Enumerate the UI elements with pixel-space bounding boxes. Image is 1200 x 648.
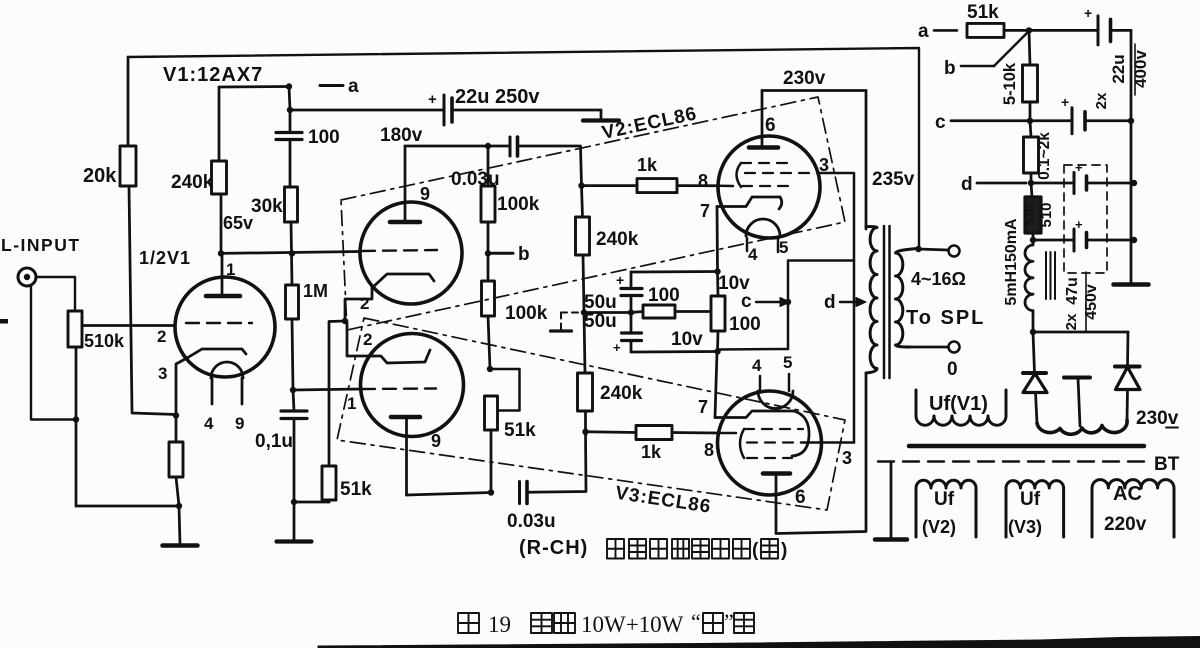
svg-text:100k: 100k	[505, 303, 548, 324]
winding Uf(V2)	[916, 480, 976, 537]
V3 pentode cathode pin 7	[715, 411, 794, 418]
resistor 1k (V3 grid stopper)	[586, 430, 637, 433]
V3 triode cathode pin 2	[373, 350, 430, 363]
svg-text:b: b	[944, 58, 956, 79]
wire V1 plate to V2 triode grid	[221, 252, 360, 254]
svg-text:”: ”	[724, 609, 734, 634]
resistor 51k (V2/V3 triode cathode bias)	[294, 501, 329, 504]
svg-text:50u: 50u	[584, 311, 617, 332]
svg-text:0.03u: 0.03u	[507, 511, 556, 532]
svg-text:450v: 450v	[1083, 284, 1100, 320]
V2 triode plate pin 9	[404, 146, 407, 222]
svg-text:180v: 180v	[380, 125, 423, 146]
svg-text:4~16Ω: 4~16Ω	[911, 269, 966, 289]
svg-text:1: 1	[226, 260, 235, 279]
phantom R-CH stub (dashed ground)	[561, 312, 584, 314]
capacitor 0.03u (bottom coupling)	[518, 482, 521, 504]
wire jack ground side	[31, 286, 76, 420]
output terminal bottom 0	[910, 346, 947, 349]
output terminal top	[915, 246, 921, 252]
resistor 240k V1 plate load	[219, 85, 289, 88]
svg-text:3: 3	[842, 448, 852, 468]
svg-text:(V2): (V2)	[922, 517, 956, 537]
tube V2 pentode section	[718, 136, 820, 238]
svg-text:50u: 50u	[584, 292, 617, 313]
svg-text:+: +	[613, 340, 621, 355]
wire V3 plate to coupling cap	[407, 493, 492, 496]
svg-text:(: (	[752, 540, 759, 561]
wire 180v line	[405, 145, 509, 148]
svg-text:+: +	[1075, 160, 1083, 175]
capacitor 50u (top)	[630, 272, 633, 289]
svg-text:1k: 1k	[637, 155, 658, 175]
svg-text:20k: 20k	[83, 165, 117, 187]
svg-text:(R-CH): (R-CH)	[519, 537, 588, 559]
HT center tap to ground bar	[1064, 376, 1090, 380]
svg-text:230v: 230v	[783, 68, 826, 89]
capacitor 47u (lower)	[1033, 239, 1073, 242]
svg-text:5-10k: 5-10k	[1001, 62, 1019, 105]
svg-text:1M: 1M	[303, 281, 328, 301]
svg-text:AC: AC	[1113, 483, 1142, 505]
wire B+ to filter cap	[289, 87, 290, 111]
svg-text:c: c	[935, 112, 946, 133]
wire feedback top (20k to speaker secondary)	[128, 48, 919, 251]
winding AC 220v	[1092, 480, 1174, 537]
svg-text:2x: 2x	[1063, 313, 1080, 330]
svg-text:b: b	[518, 244, 530, 265]
V3 triode plate pin 9	[391, 415, 420, 420]
svg-text:19: 19	[488, 612, 511, 637]
svg-text:510: 510	[1023, 205, 1037, 225]
svg-text:3: 3	[158, 364, 167, 383]
OPT primary winding	[866, 227, 877, 374]
svg-text:240k: 240k	[171, 172, 214, 193]
V1 cathode pin 3	[187, 349, 246, 358]
wire b-chain to 50u midpoint	[584, 311, 631, 314]
svg-text:65v: 65v	[223, 213, 253, 233]
wire cathode to 50u top	[631, 270, 718, 273]
svg-text:230v: 230v	[1136, 408, 1179, 429]
svg-text:Uf: Uf	[934, 489, 955, 510]
node 10v top junction	[714, 268, 720, 274]
V2 triode grid	[362, 250, 437, 251]
svg-text:d: d	[824, 292, 836, 313]
winding Uf(V3)	[1006, 481, 1064, 537]
input jack connector	[18, 268, 36, 286]
svg-text:235v: 235v	[872, 169, 915, 190]
capacitor 100 (V1 plate bypass)	[289, 110, 292, 132]
svg-text:30k: 30k	[251, 196, 283, 217]
ground V1 cathode	[179, 506, 180, 544]
svg-text:8: 8	[698, 171, 708, 191]
svg-text:To SPL: To SPL	[906, 307, 985, 329]
V2 pentode heater pins 4 5	[746, 219, 780, 236]
svg-text:5: 5	[783, 353, 792, 372]
resistor 100k (lower)	[487, 253, 490, 281]
tube envelope V2 ECL86 dash-dot box	[341, 97, 845, 330]
ground power transformer	[890, 462, 893, 538]
V2 triode cathode pin 2	[372, 274, 434, 288]
wire 50u bottom to V3 cathode node	[631, 350, 718, 353]
V3 pentode heater pins 4 5	[758, 391, 793, 409]
svg-text:51k: 51k	[504, 420, 536, 441]
svg-text:8: 8	[704, 440, 714, 460]
svg-text:3: 3	[819, 155, 829, 175]
svg-text:+: +	[1061, 94, 1069, 110]
svg-text:1: 1	[347, 394, 356, 413]
wire jack to 510k pot	[36, 277, 75, 311]
svg-text:51k: 51k	[967, 2, 999, 23]
V1 heater pins 4 9	[211, 362, 243, 378]
svg-text:+: +	[1084, 5, 1092, 21]
resistor 30k	[285, 187, 298, 222]
svg-text:2: 2	[363, 330, 372, 349]
svg-text:2x: 2x	[1093, 92, 1110, 109]
potentiometer 510k	[68, 311, 82, 347]
svg-text:6: 6	[765, 115, 776, 136]
svg-text:4: 4	[748, 245, 758, 264]
wire 510k bottom to ground bus	[75, 347, 78, 506]
svg-text:Uf(V1): Uf(V1)	[929, 393, 988, 415]
svg-text:a: a	[348, 76, 359, 97]
svg-text:2: 2	[157, 327, 166, 346]
svg-text:): )	[781, 540, 787, 561]
svg-text:2: 2	[360, 294, 369, 313]
wire screens to node c	[788, 261, 854, 350]
rail to ground	[1130, 30, 1133, 283]
tube envelope V3 ECL86 dash-dot box	[337, 318, 845, 510]
svg-text:d: d	[961, 174, 973, 195]
svg-text:22u 250v: 22u 250v	[455, 86, 540, 108]
svg-text:V2:ECL86: V2:ECL86	[600, 103, 699, 144]
svg-text:(V3): (V3)	[1008, 517, 1042, 537]
wire 230v (V2 plate to OPT primary top)	[762, 89, 866, 92]
resistor 5-10k	[1029, 30, 1030, 65]
bottom scan edge artifact	[318, 637, 1200, 648]
svg-text:c: c	[741, 291, 752, 312]
V2 pentode cathode pin 7	[717, 197, 780, 207]
resistor 1k (V2 grid stopper)	[582, 184, 638, 187]
capacitor 22u 400v (top)	[1029, 29, 1098, 32]
svg-text:5: 5	[779, 238, 788, 257]
svg-text:0: 0	[947, 359, 958, 380]
svg-text:240k: 240k	[600, 383, 643, 404]
capacitor 47u (d level)	[1031, 182, 1073, 185]
resistor 240k (upper)	[578, 182, 584, 188]
node b stub	[485, 250, 491, 256]
svg-text:51k: 51k	[340, 479, 372, 500]
resistor 100k (upper)	[485, 143, 491, 149]
svg-text:BT: BT	[1154, 454, 1180, 475]
svg-text:400v: 400v	[1131, 50, 1150, 88]
svg-text:47u: 47u	[1064, 277, 1081, 305]
svg-text:V3:ECL86: V3:ECL86	[614, 483, 713, 518]
svg-text:+: +	[616, 272, 624, 288]
winding 230v HT secondary	[1037, 420, 1127, 434]
label V3:ECL86	[614, 483, 713, 518]
svg-text:0,1u: 0,1u	[255, 431, 293, 452]
resistor 20k (feedback)	[127, 57, 130, 146]
capacitor 0.1u	[293, 390, 294, 411]
resistor 1M	[286, 285, 299, 319]
left edge tick	[0, 319, 8, 324]
V3 pentode screen pin 3 wire	[801, 441, 854, 444]
V2 pentode screen pin 3 wire	[818, 173, 854, 443]
OPT core	[883, 226, 886, 378]
V3 pentode grids	[744, 428, 803, 430]
capacitor 22u 250v	[443, 95, 446, 125]
label V2:ECL86	[600, 103, 699, 144]
BT dashed line	[878, 460, 1150, 462]
tube V2 triode section	[360, 202, 462, 304]
ground 0.1u / 51k	[293, 502, 296, 540]
V2 pentode grids	[741, 162, 789, 164]
V1 cathode resistor (unlabeled)	[173, 412, 179, 418]
svg-text:7: 7	[700, 201, 710, 221]
svg-text:7: 7	[698, 397, 708, 417]
V1 plate pin 1	[221, 254, 224, 297]
svg-text:10v: 10v	[671, 329, 703, 350]
svg-text:9: 9	[235, 414, 244, 433]
tube V3 pentode section	[718, 391, 822, 495]
svg-text:100: 100	[648, 285, 680, 306]
svg-text:“: “	[691, 609, 701, 634]
svg-text:L-INPUT: L-INPUT	[1, 235, 81, 255]
svg-text:220v: 220v	[1104, 514, 1147, 535]
svg-text:240k: 240k	[596, 229, 639, 250]
capacitor 22u 400v (c level)	[1030, 119, 1071, 122]
svg-text:V1:12AX7: V1:12AX7	[163, 64, 263, 86]
wire to V3 triode grid	[293, 389, 361, 390]
svg-text:1k: 1k	[641, 442, 662, 462]
svg-text:+: +	[1075, 217, 1083, 232]
V3 triode grid pin 1	[362, 387, 436, 390]
V3 pentode plate pin 6	[763, 471, 790, 476]
svg-text:5mH150mA: 5mH150mA	[1003, 218, 1020, 306]
capacitor 0.03u (top coupling)	[509, 137, 512, 156]
svg-text:Uf: Uf	[1020, 489, 1041, 510]
V1 grid pin 2	[186, 322, 252, 324]
svg-text:a: a	[918, 21, 929, 42]
transformer core bar	[909, 444, 1144, 449]
svg-text:6: 6	[795, 487, 806, 508]
choke 5mH 150mA	[1025, 240, 1033, 313]
OPT secondary winding	[896, 249, 919, 348]
diode rectifier left	[1033, 331, 1128, 334]
svg-text:9: 9	[420, 184, 430, 204]
svg-text:100k: 100k	[497, 194, 540, 215]
caption line	[458, 613, 479, 633]
capacitor 50u (bottom)	[630, 313, 633, 334]
svg-text:10W+10W: 10W+10W	[581, 612, 684, 637]
resistor 51k (supply)	[967, 23, 1004, 37]
tube V3 triode section	[361, 334, 464, 437]
resistor 510	[1031, 183, 1032, 197]
svg-text:510k: 510k	[84, 331, 125, 351]
svg-text:22u: 22u	[1109, 54, 1128, 83]
potentiometer 51k (AC balance)	[490, 369, 520, 411]
winding Uf(V1)	[916, 390, 1006, 425]
svg-text:4: 4	[204, 414, 214, 433]
svg-text:4: 4	[752, 356, 762, 375]
svg-text:100: 100	[729, 314, 761, 335]
V2 pentode plate pin 6	[749, 145, 778, 150]
svg-text:0.1~2k: 0.1~2k	[1036, 132, 1053, 180]
dashed box around 47u caps	[1064, 165, 1107, 273]
svg-text:1/2V1: 1/2V1	[139, 248, 191, 268]
resistor 0.1-2k	[1030, 121, 1031, 137]
resistor 100 (vertical, between cathodes)	[716, 272, 719, 297]
diode rectifier right	[1126, 332, 1129, 367]
svg-text:100: 100	[308, 127, 340, 148]
node a stub (top left)	[286, 83, 292, 89]
svg-text:9: 9	[431, 431, 441, 451]
svg-text:510: 510	[1038, 202, 1055, 227]
resistor 240k (lower)	[584, 313, 585, 374]
svg-text:+: +	[428, 91, 437, 108]
